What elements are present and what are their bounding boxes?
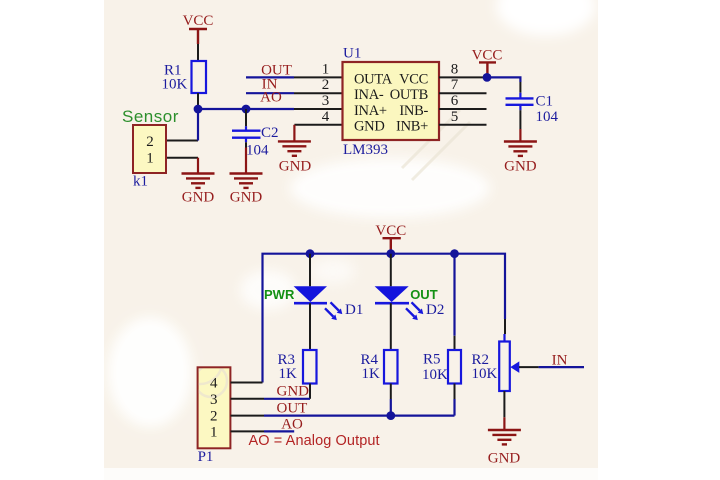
junction node at pin8 — [483, 73, 492, 82]
wire P1 pin4 stub — [231, 382, 263, 384]
ground GND under sensor pin1 — [182, 158, 215, 206]
wire sensor pin1 to ground — [166, 157, 198, 159]
svg-text:2: 2 — [146, 134, 154, 150]
wire VCC to R1 — [197, 44, 199, 61]
svg-text:P1: P1 — [198, 449, 214, 465]
svg-text:GND: GND — [182, 190, 215, 206]
svg-text:VCC: VCC — [375, 223, 406, 239]
wire node to C2 — [245, 109, 247, 126]
svg-text:OUT: OUT — [277, 400, 308, 416]
wire R1 to node — [197, 93, 199, 109]
wire wiper to IN — [519, 366, 584, 368]
wire node AO horizontal — [198, 108, 294, 110]
resistor R4 — [361, 350, 398, 384]
svg-text:AO = Analog Output: AO = Analog Output — [249, 433, 380, 449]
wire D1 to R3 — [309, 303, 311, 350]
wire R5 to OUT net — [454, 384, 456, 416]
svg-text:PWR: PWR — [264, 287, 295, 302]
svg-text:1: 1 — [210, 424, 218, 440]
svg-text:Sensor: Sensor — [122, 107, 179, 126]
wire pin8 to C1 — [487, 77, 520, 82]
svg-text:2: 2 — [210, 409, 218, 425]
junction node D2 branch — [386, 249, 395, 258]
svg-text:1K: 1K — [279, 366, 298, 382]
svg-text:8: 8 — [451, 62, 459, 78]
svg-text:R5: R5 — [423, 352, 441, 368]
svg-text:INB-: INB- — [399, 103, 428, 119]
svg-text:VCC: VCC — [472, 48, 503, 64]
resistor R1 — [162, 61, 207, 93]
ground GND under C1 — [504, 129, 537, 175]
wire rail to R2 — [504, 319, 507, 342]
svg-text:104: 104 — [246, 143, 269, 159]
op-amp U1 LM393 body — [343, 62, 440, 140]
wire sensor pin2 to node — [166, 140, 198, 142]
svg-text:VCC: VCC — [183, 13, 214, 29]
wire D2 to R4 — [390, 303, 392, 350]
svg-text:C2: C2 — [261, 125, 279, 141]
svg-text:OUT: OUT — [410, 287, 438, 302]
wire net OUT to pin1 — [246, 76, 343, 78]
wire P1 pin3 to R3 — [231, 398, 311, 400]
connector k1 Sensor box — [133, 125, 166, 173]
svg-text:IN: IN — [552, 352, 568, 368]
junction node at C2 top — [242, 105, 251, 114]
wire pin8 stub — [439, 76, 487, 78]
svg-text:k1: k1 — [133, 174, 148, 190]
LED D2 — [375, 286, 424, 320]
resistor R3 — [278, 350, 317, 384]
svg-text:GND: GND — [488, 450, 521, 466]
wire R4 to OUT net — [390, 384, 392, 416]
connector P1 box — [178, 340, 230, 448]
power VCC net symbol (top left) — [183, 13, 214, 44]
junction node at R1 bottom — [194, 105, 203, 114]
svg-text:AO: AO — [260, 89, 282, 105]
junction node R4 at OUT net — [386, 411, 395, 420]
wire pin4 to ground — [294, 124, 342, 126]
svg-text:OUTA: OUTA — [354, 71, 393, 87]
capacitor C1 — [506, 93, 559, 125]
ground GND at U1 pin4 — [278, 125, 312, 175]
svg-text:10K: 10K — [422, 367, 448, 383]
svg-text:GND: GND — [279, 159, 312, 175]
junction node R5 branch — [450, 249, 459, 258]
svg-text:U1: U1 — [343, 46, 361, 62]
svg-text:INB+: INB+ — [396, 119, 428, 135]
resistor R5 — [422, 350, 461, 384]
svg-text:1: 1 — [146, 151, 154, 167]
svg-text:104: 104 — [536, 109, 559, 125]
svg-text:6: 6 — [451, 93, 459, 109]
svg-text:GND: GND — [230, 190, 263, 206]
svg-text:D2: D2 — [426, 302, 444, 318]
svg-text:5: 5 — [451, 109, 459, 125]
ground GND under C2 — [230, 148, 263, 206]
wire pin6 stub — [439, 108, 487, 110]
junction node D1 branch — [306, 249, 315, 258]
svg-text:7: 7 — [451, 77, 459, 93]
svg-text:1: 1 — [322, 62, 330, 78]
svg-text:2: 2 — [322, 77, 330, 93]
wire pin5 stub — [439, 124, 487, 126]
wire R2 to ground — [503, 391, 505, 417]
wire net IN to pin2 — [246, 92, 343, 94]
wire pin7 stub — [439, 92, 487, 94]
svg-text:10K: 10K — [162, 77, 188, 93]
svg-text:INA+: INA+ — [354, 103, 387, 119]
capacitor C2 — [232, 125, 279, 159]
svg-text:4: 4 — [210, 376, 218, 392]
svg-text:C1: C1 — [536, 94, 554, 110]
svg-text:GND: GND — [277, 384, 310, 400]
wire rail to D1 — [309, 254, 311, 287]
svg-text:LM393: LM393 — [343, 142, 388, 158]
wire P1 pin2 OUT net — [231, 415, 455, 417]
wire VCC rail with side drops — [263, 254, 506, 383]
svg-text:OUTB: OUTB — [390, 87, 428, 103]
power VCC rail (bottom section) — [375, 223, 406, 254]
wire AO to pin3 — [294, 108, 343, 110]
wire to C1 top — [519, 82, 521, 93]
LED D1 — [294, 286, 343, 320]
svg-text:GND: GND — [504, 159, 537, 175]
potentiometer R2 — [472, 342, 520, 392]
wire rail to R5 — [453, 254, 455, 350]
svg-text:VCC: VCC — [399, 71, 428, 87]
svg-text:4: 4 — [322, 109, 330, 125]
ground GND under R2 — [488, 417, 521, 466]
wire C2 to ground — [245, 142, 247, 147]
svg-text:3: 3 — [322, 93, 330, 109]
svg-text:D1: D1 — [345, 302, 363, 318]
svg-text:3: 3 — [210, 392, 218, 408]
svg-text:10K: 10K — [472, 366, 498, 382]
svg-text:INA-: INA- — [354, 87, 384, 103]
svg-text:GND: GND — [354, 119, 385, 135]
svg-text:1K: 1K — [362, 366, 381, 382]
wire R3 to GND net — [309, 384, 311, 399]
wire P1 pin1 AO — [231, 430, 295, 432]
power VCC at pin8 — [472, 48, 503, 78]
wire rail to D2 — [390, 254, 392, 287]
svg-text:AO: AO — [281, 417, 303, 433]
wire C1 to ground — [519, 110, 521, 129]
